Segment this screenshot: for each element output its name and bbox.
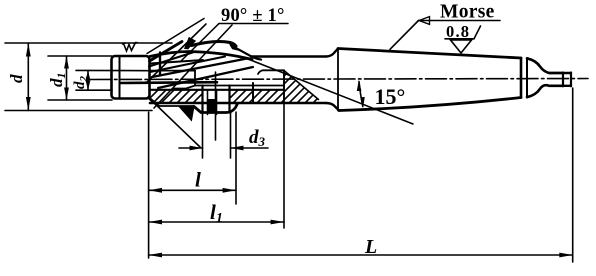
wire: d top extension line	[5, 42, 172, 44]
Morse leader line	[419, 20, 501, 22]
slot filled block	[208, 99, 217, 112]
slot left line	[207, 90, 209, 115]
L right extension	[572, 88, 574, 262]
hole in section: left wall	[201, 86, 203, 113]
breakout boundary diagonal	[284, 71, 319, 100]
wire: d2 top extension line	[76, 69, 150, 71]
tang end vertical	[570, 73, 572, 87]
d3 left extension	[202, 111, 204, 158]
cone edge thin extension	[147, 19, 204, 54]
15deg arrowhead top	[357, 80, 362, 91]
hatching	[136, 60, 380, 112]
90deg construction line B	[154, 25, 232, 108]
tang top	[549, 72, 571, 74]
lower land edge line	[158, 105, 194, 107]
tang flat vertical	[562, 73, 564, 87]
hole depth line	[252, 83, 254, 103]
flute thorn on arc (filled)	[229, 42, 238, 50]
l1 arrows	[149, 220, 162, 225]
wire: d bottom extension line	[5, 110, 152, 112]
head left top cutting edge	[150, 42, 183, 62]
flute spur (filled)	[185, 38, 196, 50]
flute land line	[150, 60, 203, 64]
centerline axis	[90, 79, 588, 80]
roughness symbol tick	[474, 26, 481, 39]
svg-text:90° ± 1°: 90° ± 1°	[221, 6, 285, 26]
d2 arrows	[86, 70, 91, 80]
svg-text:Morse: Morse	[440, 2, 495, 23]
Morse leader slant	[390, 21, 419, 50]
l1 dimension line	[149, 221, 284, 223]
hole end vertical	[283, 70, 285, 102]
15deg arrowhead bottom	[360, 97, 365, 108]
Morse leader arrow (open triangle)	[419, 17, 430, 25]
taper junction vertical	[337, 49, 339, 111]
svg-text:15°: 15°	[375, 84, 406, 109]
L dimension line	[149, 254, 573, 256]
90deg arc arrowhead lower (filled)	[179, 107, 194, 121]
slot right line	[216, 90, 218, 115]
pilot body	[112, 56, 150, 99]
tooth face vertical	[159, 53, 161, 76]
flute arc tail	[235, 48, 261, 60]
d1 arrows	[64, 56, 69, 69]
head bottom cutting edge	[150, 99, 159, 107]
90deg leader line	[181, 24, 288, 62]
dimension d	[27, 43, 29, 111]
L arrows	[149, 253, 162, 258]
l right extension	[235, 112, 237, 204]
svg-text:l: l	[195, 168, 201, 192]
l1 right extension	[283, 104, 285, 228]
tang neck top curve	[527, 58, 563, 73]
hole in section: right wall	[228, 86, 230, 113]
wire: d2 bottom extension line	[76, 89, 112, 91]
dimension d1	[66, 56, 68, 100]
l arrows	[149, 188, 162, 193]
arrowheads	[26, 43, 573, 257]
flute line G4	[158, 67, 253, 88]
pilot shank line in hole	[150, 70, 196, 72]
tang neck bottom curve	[527, 85, 563, 97]
tang bottom	[549, 85, 571, 87]
d3 arrows	[190, 146, 203, 151]
head top contour arc	[150, 52, 253, 60]
15deg angle arrow	[359, 82, 363, 107]
pilot interior line	[120, 81, 217, 84]
section band top edge	[150, 89, 284, 91]
90 deg lower extension line with arrowhead	[150, 99, 201, 148]
l/l1/L left extension	[148, 112, 150, 258]
d arrows	[26, 43, 31, 57]
pilot shank end vertical	[194, 71, 196, 86]
breakout boundary left curve	[258, 70, 284, 74]
pilot end face line	[119, 57, 121, 99]
neck bottom / band bottom	[150, 102, 326, 105]
roughness symbol bar	[445, 38, 474, 40]
neck-taper bottom fillet	[326, 103, 339, 111]
hole bottom step line	[173, 86, 284, 89]
l dimension line	[149, 189, 236, 191]
wire: d1 bottom extension line	[48, 99, 112, 101]
roughness symbol triangle	[451, 40, 472, 53]
flute line G2	[149, 52, 194, 67]
hole centerline vertical	[215, 72, 217, 140]
taper end vertical 2	[526, 58, 528, 97]
taper end vertical 1	[520, 58, 523, 98]
flute line G1b	[150, 57, 225, 73]
d3 right extension	[230, 111, 232, 158]
svg-text:0.8: 0.8	[446, 22, 470, 41]
wire: d1 top extension line	[48, 55, 112, 57]
d3 dimension left segment	[179, 147, 203, 149]
head upper flute arc	[192, 42, 237, 47]
90deg construction line A	[146, 24, 206, 83]
dimension d2	[87, 70, 89, 90]
svg-text:d: d	[7, 74, 26, 83]
d3 dimension right segment	[231, 147, 269, 149]
15deg flute runout line	[248, 59, 413, 124]
taper bottom line	[339, 98, 521, 111]
surface mark on pilot	[123, 43, 138, 52]
head bottom flat and fillet	[194, 104, 238, 113]
flute line G3	[152, 59, 247, 78]
taper top line	[338, 49, 521, 59]
neck top line	[251, 55, 326, 58]
neck-taper top fillet	[326, 49, 338, 57]
svg-text:L: L	[364, 236, 377, 258]
